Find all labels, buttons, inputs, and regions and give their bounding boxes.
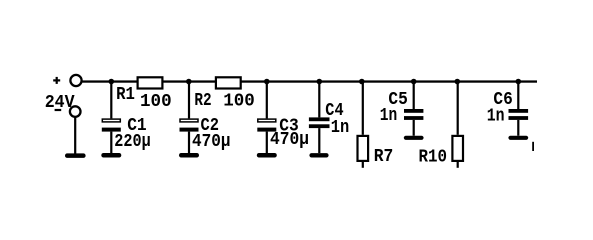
- plus terminal of 24V supply: [70, 75, 81, 86]
- plus sign label: [53, 77, 60, 84]
- capacitor C4: [309, 82, 330, 154]
- stray wire stub right of C6 ground: [532, 142, 534, 151]
- capacitor C3: [257, 82, 276, 154]
- node junction at R10: [455, 79, 461, 85]
- resistor R7: [358, 82, 369, 168]
- capacitor C1: [102, 82, 121, 154]
- svg-text:R1: R1: [116, 85, 135, 105]
- node junction at C2: [186, 79, 192, 85]
- minus sign label: [55, 109, 62, 111]
- resistor R1: [138, 77, 163, 88]
- svg-text:1n: 1n: [331, 118, 350, 138]
- ground bar under C3: [257, 153, 277, 158]
- wire top supply rail: [83, 80, 538, 82]
- node junction at C3: [264, 79, 270, 85]
- minus terminal of 24V supply: [70, 106, 81, 117]
- ground bar under C1: [101, 153, 121, 158]
- svg-text:470µ: 470µ: [270, 130, 309, 150]
- svg-text:R10: R10: [419, 147, 448, 167]
- node junction at R7: [359, 79, 365, 85]
- resistor R2: [216, 77, 241, 88]
- svg-text:470µ: 470µ: [192, 132, 231, 152]
- capacitor C5: [404, 82, 423, 136]
- svg-text:220µ: 220µ: [114, 132, 151, 152]
- node junction at C1: [109, 79, 115, 85]
- svg-text:100: 100: [140, 92, 172, 112]
- ground bar under C5: [404, 136, 424, 140]
- ground bar under minus terminal: [65, 153, 86, 158]
- svg-text:1n: 1n: [380, 106, 398, 126]
- svg-text:R2: R2: [194, 91, 211, 111]
- svg-text:100: 100: [223, 91, 255, 111]
- svg-text:1n: 1n: [487, 106, 505, 126]
- ground bar under C6: [508, 136, 528, 140]
- ground bar under C4: [309, 153, 328, 157]
- wire minus terminal to ground: [74, 118, 76, 154]
- ground bar under C2: [179, 153, 199, 158]
- node junction at C5: [411, 79, 417, 85]
- svg-text:R7: R7: [374, 147, 394, 167]
- node junction at C4: [317, 79, 323, 85]
- capacitor C6: [509, 82, 529, 136]
- capacitor C2: [180, 82, 199, 154]
- resistor R10: [452, 82, 463, 168]
- node junction at C6: [516, 79, 522, 85]
